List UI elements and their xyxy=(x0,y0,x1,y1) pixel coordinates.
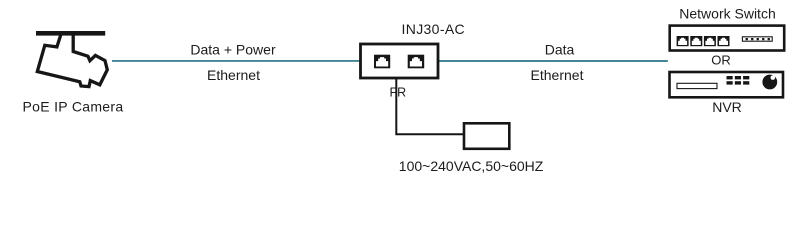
wire: Ethernet injector-to-switch (blue) xyxy=(438,60,668,62)
switch port 2 xyxy=(690,36,702,46)
switch port 1 jack face xyxy=(678,38,687,45)
injector port 1 xyxy=(374,55,390,69)
switch LED dots xyxy=(746,38,770,40)
svg-text:PoE IP Camera: PoE IP Camera xyxy=(23,99,124,115)
switch port 3 xyxy=(704,36,716,46)
svg-text:Ethernet: Ethernet xyxy=(207,67,260,83)
network switch box xyxy=(670,26,785,51)
svg-text:FR: FR xyxy=(390,86,407,100)
svg-text:INJ30-AC: INJ30-AC xyxy=(402,21,465,37)
power adapter box xyxy=(464,123,509,149)
svg-text:Ethernet: Ethernet xyxy=(531,67,584,83)
switch port 4 xyxy=(718,36,730,46)
svg-text:OR: OR xyxy=(711,52,731,67)
injector port 1 jack face xyxy=(376,57,388,66)
NVR button grid xyxy=(727,76,750,85)
NVR disc tray xyxy=(677,83,717,88)
NVR jog knob xyxy=(762,75,777,90)
NVR box xyxy=(670,72,784,97)
svg-text:Data: Data xyxy=(545,41,575,57)
switch port 4 jack face xyxy=(719,38,728,45)
injector U1 box xyxy=(361,44,439,78)
svg-text:Data + Power: Data + Power xyxy=(190,41,276,57)
NVR knob highlight xyxy=(771,75,776,80)
svg-text:NVR: NVR xyxy=(712,99,742,115)
svg-text:Network Switch: Network Switch xyxy=(679,6,775,22)
camera mount bar xyxy=(36,31,105,36)
switch LED strip xyxy=(742,37,772,41)
wire: Ethernet camera-to-injector (blue) xyxy=(112,60,361,62)
svg-text:100~240VAC,50~60HZ: 100~240VAC,50~60HZ xyxy=(399,158,544,174)
injector port 2 xyxy=(408,55,425,69)
switch port 2 jack face xyxy=(692,38,701,45)
switch port 3 jack face xyxy=(705,38,714,45)
PoE IP camera body xyxy=(37,34,107,87)
switch port 1 xyxy=(677,36,689,46)
injector port 2 jack face xyxy=(410,57,422,66)
wire: power cord from injector xyxy=(396,78,464,134)
